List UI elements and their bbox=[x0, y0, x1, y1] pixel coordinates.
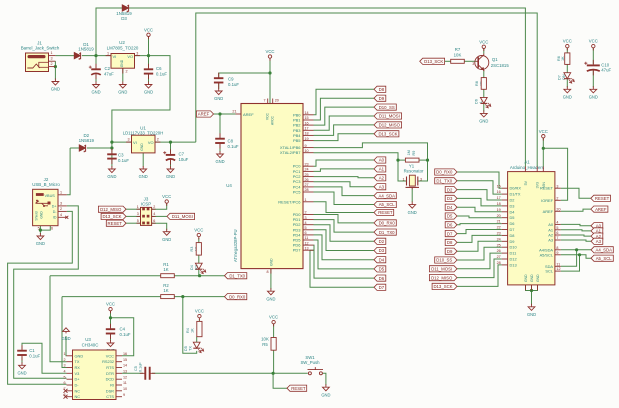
wire C1 to ground bbox=[21, 357, 23, 363]
A1 pin 20 D5 bbox=[502, 217, 508, 219]
wire R2 to D0_RX0 label bbox=[174, 296, 226, 298]
A1 pin 19 D4 bbox=[502, 211, 508, 213]
svg-text:1: 1 bbox=[63, 352, 65, 356]
svg-text:A5_SCL: A5_SCL bbox=[596, 256, 613, 261]
svg-text:CTS: CTS bbox=[106, 394, 114, 399]
wire U4 PB1 to D9 label bbox=[314, 98, 375, 120]
svg-text:D12_MISO: D12_MISO bbox=[379, 123, 401, 128]
A1 pin 21 D6 bbox=[502, 223, 508, 225]
svg-text:2: 2 bbox=[60, 207, 62, 211]
ground above U3 pin1 bbox=[63, 328, 70, 334]
wire U4 PD3 to D3 net label bbox=[314, 230, 375, 251]
svg-text:A0: A0 bbox=[379, 158, 385, 163]
wire U4 PC4 to A4 net label bbox=[314, 187, 375, 196]
svg-text:D7: D7 bbox=[510, 227, 515, 232]
svg-text:3: 3 bbox=[472, 62, 474, 66]
junction J2 ground bbox=[39, 229, 42, 232]
svg-text:GND: GND bbox=[17, 371, 26, 376]
A1 pin 3 RESET bbox=[555, 187, 561, 189]
wire C7 to ground bbox=[170, 161, 172, 167]
svg-text:2: 2 bbox=[556, 196, 558, 200]
wire VCC to R4 bbox=[198, 319, 200, 321]
wire TX vertical to U3 pin2 bbox=[50, 276, 67, 362]
svg-text:VCC: VCC bbox=[194, 228, 203, 233]
svg-text:GND: GND bbox=[408, 210, 417, 215]
U4 pin 6 PD4 bbox=[303, 234, 314, 236]
VCC power symbol above C10 bbox=[592, 44, 595, 47]
svg-text:D2: D2 bbox=[510, 198, 515, 203]
svg-text:26: 26 bbox=[497, 249, 501, 253]
svg-text:DCD: DCD bbox=[106, 377, 115, 382]
net label D9 left of A1 bbox=[445, 248, 457, 254]
J2 pin 3 bbox=[58, 205, 67, 207]
svg-text:D7: D7 bbox=[379, 285, 385, 290]
wire U4 PC1 to A1 net label bbox=[314, 169, 375, 172]
junction VCC/C9 bbox=[268, 71, 271, 74]
wire U4 PB4 to D12 label bbox=[314, 125, 375, 135]
svg-text:24: 24 bbox=[305, 168, 309, 172]
svg-text:3: 3 bbox=[60, 201, 62, 205]
wire U4 PD2 to D2 net label bbox=[314, 225, 375, 242]
A1 top pins 5V 3V3 VIN bbox=[525, 167, 543, 172]
net label D3 left of A1 bbox=[445, 195, 457, 201]
svg-text:D0_RX0: D0_RX0 bbox=[379, 221, 396, 226]
wire SW1 to ground bbox=[323, 373, 326, 385]
wire down to C7 bbox=[170, 142, 172, 153]
net label A1 right of U4 bbox=[374, 166, 386, 172]
wire U3 TX line to R1 bbox=[50, 275, 161, 277]
wire VCC to C4 bbox=[110, 311, 112, 328]
svg-text:D10_SS: D10_SS bbox=[379, 105, 395, 110]
J3 pins 1/2 bbox=[137, 208, 156, 210]
svg-text:Shield: Shield bbox=[35, 211, 39, 220]
net label D3 right of U4 bbox=[374, 247, 386, 253]
A1 pin 7 A3 bbox=[555, 239, 561, 241]
wire J3 pin6 to ground bbox=[152, 223, 167, 230]
U3 pin 13 DTR bbox=[116, 372, 122, 374]
svg-text:1: 1 bbox=[60, 190, 62, 194]
net label D4 right of U4 bbox=[374, 257, 386, 263]
svg-text:AREF: AREF bbox=[198, 112, 210, 117]
svg-text:12: 12 bbox=[556, 267, 560, 271]
svg-text:VBUS: VBUS bbox=[45, 194, 56, 198]
wire Q1 emitter to R8 bbox=[483, 71, 485, 78]
A1 pin 20 AREF bbox=[555, 210, 561, 212]
capacitor C6 0.1uF bbox=[148, 64, 150, 79]
J3 pins 5/6 bbox=[137, 222, 156, 224]
resistor R4 1K bbox=[197, 321, 202, 336]
wire C2 to ground bbox=[95, 75, 97, 83]
svg-text:D8: D8 bbox=[447, 240, 453, 245]
svg-text:GND: GND bbox=[162, 237, 171, 242]
wire tap to C9 bbox=[219, 73, 270, 78]
wire header A0 pin to A0 label bbox=[561, 224, 591, 225]
svg-text:AREF: AREF bbox=[243, 112, 254, 117]
wire header A4/SDA pin to A4_SDA label bbox=[561, 249, 591, 251]
svg-text:XTAL2/PB7: XTAL2/PB7 bbox=[280, 150, 301, 155]
wire VCC to R6 bbox=[566, 48, 568, 53]
svg-text:24: 24 bbox=[497, 237, 501, 241]
wire J2 VBUS up to D2 bbox=[67, 148, 70, 195]
J1 pin 2 bbox=[49, 66, 56, 68]
svg-text:GND: GND bbox=[527, 312, 536, 317]
svg-text:VCC: VCC bbox=[195, 309, 204, 314]
net label D11_MOSI at ICSP bbox=[167, 213, 195, 219]
svg-text:SW_Push: SW_Push bbox=[300, 360, 320, 365]
svg-text:GND: GND bbox=[91, 90, 100, 95]
svg-text:VI: VI bbox=[113, 54, 117, 59]
U3 pin 3 RX bbox=[67, 367, 73, 369]
svg-text:GND: GND bbox=[51, 87, 60, 92]
ground below C6 bbox=[145, 82, 152, 89]
ground below C2 bbox=[93, 82, 100, 89]
connector A1 Arduino_Headers body bbox=[508, 172, 555, 285]
svg-text:D1_TX0: D1_TX0 bbox=[436, 179, 452, 184]
svg-text:28: 28 bbox=[305, 188, 309, 192]
svg-text:GND: GND bbox=[530, 274, 534, 282]
net label D4 left of A1 bbox=[445, 204, 457, 210]
svg-text:D4: D4 bbox=[379, 257, 385, 262]
svg-text:D0_RX0: D0_RX0 bbox=[436, 170, 453, 175]
svg-text:D9: D9 bbox=[510, 239, 515, 244]
wire J2 GND and shield pins tied bbox=[40, 226, 50, 230]
svg-text:1: 1 bbox=[50, 51, 52, 55]
wire D2 cathode to U1 input node bbox=[87, 147, 112, 149]
U3 pin 14 RTS bbox=[116, 367, 122, 369]
wire VCC to R3 bbox=[198, 238, 200, 243]
svg-text:C2: C2 bbox=[105, 66, 111, 71]
wire D7 label to header pin 22 bbox=[457, 230, 502, 234]
A1 pin 11 SDA bbox=[555, 265, 561, 267]
svg-text:6: 6 bbox=[556, 231, 558, 235]
svg-text:16: 16 bbox=[497, 190, 501, 194]
net label D13_SCK at Q1 bbox=[420, 58, 445, 64]
junction U3 VCC node bbox=[109, 316, 112, 319]
svg-text:3: 3 bbox=[420, 178, 422, 182]
A1 pin 28 D13 bbox=[502, 264, 508, 266]
svg-text:GND: GND bbox=[524, 274, 528, 282]
svg-text:D12_MISO: D12_MISO bbox=[431, 275, 453, 280]
svg-text:AREF: AREF bbox=[543, 209, 554, 214]
wire header A2 pin to A2 label bbox=[561, 235, 591, 236]
net label RESET at ICSP bbox=[106, 220, 126, 226]
svg-text:1K: 1K bbox=[163, 267, 168, 272]
U4 pin 9 XTAL1/PB6 bbox=[303, 147, 314, 149]
svg-text:D4: D4 bbox=[447, 205, 453, 210]
wire U4 PB0 to D8 label bbox=[314, 89, 375, 115]
wire R4 to D5 bbox=[196, 337, 198, 343]
U4 pin 11 PD5 bbox=[303, 239, 314, 241]
svg-text:TX: TX bbox=[189, 346, 193, 351]
wire U4 PD4 to D4 net label bbox=[314, 235, 375, 260]
wire U3 pin1 to ground above bbox=[65, 336, 68, 356]
junction reset node bbox=[272, 372, 275, 375]
wire U1 GND pin to ground bbox=[142, 153, 144, 167]
svg-text:15: 15 bbox=[305, 116, 309, 120]
svg-text:1N5819: 1N5819 bbox=[79, 138, 95, 143]
svg-text:GND: GND bbox=[479, 119, 488, 124]
ground below C9 bbox=[215, 88, 222, 95]
ground below J3 bbox=[163, 229, 170, 236]
net label A4_SDA right of A1 bbox=[591, 247, 613, 253]
svg-text:Arduino_Headers: Arduino_Headers bbox=[510, 165, 545, 170]
svg-text:GND: GND bbox=[536, 274, 540, 282]
U3 pin 5 D+ bbox=[67, 378, 73, 380]
A1 pin 26 D11 bbox=[502, 252, 508, 254]
svg-text:47uF: 47uF bbox=[104, 71, 114, 76]
wire C5 to reset junction bbox=[152, 372, 273, 374]
junction VCC header bbox=[542, 147, 545, 150]
svg-text:2SC1815: 2SC1815 bbox=[491, 63, 510, 68]
U4 pin 18 PB4 bbox=[303, 134, 314, 136]
U4 bottom GND pin 8 bbox=[270, 269, 272, 274]
A1 pin 8 A4/SDA bbox=[555, 249, 561, 251]
wire RESET label to J3 pin5 bbox=[126, 222, 141, 224]
svg-text:10: 10 bbox=[123, 387, 127, 391]
svg-text:3: 3 bbox=[63, 364, 65, 368]
svg-text:0.1uF: 0.1uF bbox=[228, 144, 239, 149]
svg-text:6: 6 bbox=[51, 226, 53, 230]
svg-text:16: 16 bbox=[305, 121, 309, 125]
wire U2 VO to VCC node then down to U1 VI node bbox=[112, 56, 170, 153]
svg-text:A4_SDA: A4_SDA bbox=[378, 193, 395, 198]
U4 pin 25 PC2 bbox=[303, 176, 314, 178]
svg-text:15: 15 bbox=[497, 184, 501, 188]
svg-text:1: 1 bbox=[137, 205, 139, 209]
svg-text:AREF: AREF bbox=[595, 207, 607, 212]
wire VCC to R5 bbox=[273, 324, 275, 338]
net label D10_SS right of U4 bbox=[374, 104, 396, 110]
net label D10_SS left of A1 bbox=[435, 257, 457, 263]
U3 pin 10 DSR bbox=[116, 390, 122, 392]
U4 pin 27 PC4 bbox=[303, 186, 314, 188]
svg-text:D6: D6 bbox=[447, 223, 453, 228]
svg-text:20: 20 bbox=[275, 99, 279, 103]
svg-text:17: 17 bbox=[497, 196, 501, 200]
svg-text:5: 5 bbox=[137, 219, 139, 223]
svg-text:25: 25 bbox=[497, 243, 501, 247]
diode D2 1N5819 bbox=[79, 145, 85, 151]
svg-text:U3: U3 bbox=[85, 337, 91, 342]
svg-text:D3: D3 bbox=[510, 203, 515, 208]
wire D11_MOSI label to header pin 26 bbox=[457, 253, 502, 269]
VCC power symbol above J3 bbox=[165, 200, 168, 203]
svg-text:27: 27 bbox=[497, 255, 501, 259]
svg-text:3: 3 bbox=[137, 212, 139, 216]
svg-text:10uF: 10uF bbox=[179, 157, 189, 162]
ground below U1 bbox=[140, 166, 147, 173]
svg-text:0.1uF: 0.1uF bbox=[118, 158, 129, 163]
svg-text:ATmega328P-PU: ATmega328P-PU bbox=[233, 229, 238, 262]
junction J1 pin2-3 tie bbox=[54, 65, 57, 68]
svg-text:RESET/PC6: RESET/PC6 bbox=[278, 199, 301, 204]
U4 pin 15 PB1 bbox=[303, 119, 314, 121]
U4 pin 1 RESET/PC6 bbox=[303, 201, 314, 203]
wire R3 to D4 bbox=[198, 255, 200, 263]
wire D2 label to header pin 17 bbox=[457, 190, 502, 200]
svg-text:U4: U4 bbox=[226, 183, 232, 188]
svg-text:R8: R8 bbox=[475, 81, 479, 86]
wire U4 PC2 to A2 net label bbox=[314, 177, 375, 178]
wire USB D+ to U3 pin5 bbox=[14, 206, 79, 378]
svg-text:VCC: VCC bbox=[269, 315, 278, 320]
svg-text:D5: D5 bbox=[510, 215, 515, 220]
diode D1 1N5819 bbox=[74, 52, 80, 58]
wire D13_SCK label to header pin 28 bbox=[457, 265, 502, 287]
svg-text:22: 22 bbox=[497, 226, 501, 230]
ground below J1 bbox=[52, 79, 59, 86]
svg-text:7: 7 bbox=[263, 99, 265, 103]
svg-text:A3: A3 bbox=[548, 238, 553, 243]
wire header A5/SCL pin to A5_SCL label bbox=[561, 255, 591, 258]
net label D8 left of A1 bbox=[445, 239, 457, 245]
svg-text:PC5: PC5 bbox=[293, 190, 302, 195]
net label A2 right of U4 bbox=[374, 175, 386, 181]
svg-text:D11_MOSI: D11_MOSI bbox=[172, 214, 193, 219]
svg-text:4: 4 bbox=[556, 221, 558, 225]
svg-text:Q1: Q1 bbox=[492, 57, 498, 62]
junction header ground bbox=[530, 289, 533, 292]
svg-text:Resonator: Resonator bbox=[404, 169, 424, 174]
svg-text:GND: GND bbox=[139, 174, 148, 179]
wire USB VBUS to D2 anode bbox=[70, 147, 79, 149]
svg-text:12: 12 bbox=[305, 241, 309, 245]
svg-text:1: 1 bbox=[305, 198, 307, 202]
wire left node down to resonator pin1 bbox=[398, 160, 407, 181]
wire U2 GND pin to ground bbox=[122, 68, 124, 81]
wire U4 RESET/PC6 to RESET label bbox=[314, 202, 375, 213]
svg-text:GND: GND bbox=[214, 96, 223, 101]
wire RX junction down to D5 cathode bbox=[183, 297, 197, 354]
U4 pin 16 PB2 bbox=[303, 124, 314, 126]
net label A5_SCL right of A1 bbox=[591, 255, 613, 261]
svg-text:IOREF: IOREF bbox=[541, 198, 554, 203]
wire down to C6 bbox=[148, 56, 150, 68]
svg-text:GND: GND bbox=[36, 241, 45, 246]
wire right node down to resonator pin3 bbox=[418, 160, 428, 181]
A1 pin 9 A5/SCL bbox=[555, 254, 561, 256]
capacitor C10 47uF polarized bbox=[592, 60, 594, 76]
wire J3 pin2 to VCC bbox=[152, 203, 167, 209]
svg-text:PD7: PD7 bbox=[293, 248, 302, 253]
wire U3 RX line to R2 bbox=[62, 296, 161, 298]
svg-text:20: 20 bbox=[556, 207, 560, 211]
wire U4 PB3 to D11 label bbox=[314, 116, 375, 130]
svg-text:A5/SCL: A5/SCL bbox=[540, 252, 554, 257]
svg-text:RS232: RS232 bbox=[102, 359, 114, 364]
LED D4 RX bbox=[195, 263, 202, 269]
svg-text:D5: D5 bbox=[447, 214, 453, 219]
wire R9 to right node bbox=[419, 159, 428, 161]
svg-text:VO: VO bbox=[127, 54, 133, 59]
wire down to C8 bbox=[219, 114, 221, 138]
net label D13_SCK right of U4 bbox=[374, 131, 399, 137]
svg-text:V3: V3 bbox=[75, 371, 80, 376]
svg-text:21: 21 bbox=[497, 220, 501, 224]
wire J2 ground stub bbox=[39, 230, 41, 234]
svg-text:U2: U2 bbox=[119, 40, 125, 45]
net label D8 right of U4 bbox=[374, 86, 386, 92]
svg-text:A1: A1 bbox=[379, 167, 385, 172]
junction TX line / D4 bbox=[198, 274, 201, 277]
wire left node to R9 bbox=[398, 159, 406, 161]
J1 pin 1 bbox=[49, 55, 56, 57]
wire 3V3 rail from U1 output to header 3V3 pin bbox=[196, 13, 537, 167]
wire R8 to D6 bbox=[483, 89, 485, 97]
svg-text:D11_MOSI: D11_MOSI bbox=[379, 114, 400, 119]
svg-text:6: 6 bbox=[153, 219, 155, 223]
U4 pin 26 PC3 bbox=[303, 181, 314, 183]
wire D4 label to header pin 19 bbox=[457, 207, 502, 212]
U3 pin 15 RS232 bbox=[116, 361, 122, 363]
LED D7 ON bbox=[564, 73, 571, 79]
net label A3 right of A1 bbox=[591, 238, 603, 244]
wire C10 to ground bbox=[592, 70, 594, 87]
transistor Q1 2SC1815 bbox=[475, 56, 489, 70]
wire header SDA pin tied to A4 net bbox=[561, 250, 577, 266]
svg-text:18: 18 bbox=[305, 132, 309, 136]
svg-text:6: 6 bbox=[305, 231, 307, 235]
svg-text:5V: 5V bbox=[524, 180, 528, 185]
VCC power symbol above R4 bbox=[198, 314, 201, 317]
svg-text:8: 8 bbox=[266, 270, 268, 274]
svg-text:3: 3 bbox=[127, 138, 129, 142]
svg-text:VCC: VCC bbox=[539, 129, 548, 134]
U3 pin 16 VCC bbox=[116, 355, 122, 357]
ground below D7 bbox=[564, 86, 571, 93]
resonator Y1 body bbox=[409, 175, 415, 186]
svg-text:D1_TX0: D1_TX0 bbox=[379, 230, 395, 235]
VCC power symbol above A1 bbox=[542, 135, 545, 138]
svg-text:0.1uF: 0.1uF bbox=[156, 71, 167, 76]
svg-text:19: 19 bbox=[305, 137, 309, 141]
wire reset junction to SW1 bbox=[273, 372, 308, 374]
svg-text:AVCC: AVCC bbox=[271, 115, 275, 125]
svg-text:GND: GND bbox=[144, 90, 153, 95]
wire D13_SCK label to J3 pin3 bbox=[126, 215, 141, 217]
regulator U1 LD1117V33 body bbox=[132, 135, 156, 153]
svg-text:VCC: VCC bbox=[563, 39, 572, 44]
wire D0_RX0 label to header pin 15 bbox=[457, 172, 502, 188]
svg-text:21: 21 bbox=[232, 109, 236, 113]
svg-text:D7: D7 bbox=[447, 231, 453, 236]
svg-text:D1/TX: D1/TX bbox=[510, 192, 521, 197]
net label D7 left of A1 bbox=[445, 231, 457, 237]
svg-text:15: 15 bbox=[123, 358, 127, 362]
net label D2 right of U4 bbox=[374, 238, 386, 244]
svg-text:A3: A3 bbox=[379, 184, 385, 189]
wire header A1 pin to A1 label bbox=[561, 230, 591, 231]
net label D9 right of U4 bbox=[374, 95, 386, 101]
svg-text:CH340C: CH340C bbox=[82, 343, 99, 348]
svg-text:C1: C1 bbox=[29, 348, 35, 353]
ground below C8 bbox=[217, 151, 224, 158]
svg-text:3: 3 bbox=[305, 216, 307, 220]
ground below SW1 bbox=[323, 384, 330, 391]
U4 pin 12 PD6 bbox=[303, 244, 314, 246]
net label A1 right of A1 bbox=[591, 228, 603, 234]
svg-text:26: 26 bbox=[305, 178, 309, 182]
wire U3 DTR pin to C5 bbox=[122, 372, 143, 374]
A1 pin 4 A0 bbox=[555, 223, 561, 225]
wire D6 to ground bbox=[483, 103, 485, 111]
svg-text:3: 3 bbox=[50, 57, 52, 61]
svg-text:C4: C4 bbox=[120, 327, 126, 332]
svg-text:8: 8 bbox=[63, 393, 65, 397]
wire D3 label to header pin 18 bbox=[457, 198, 502, 206]
svg-text:D4: D4 bbox=[190, 265, 194, 270]
net label D7 right of U4 bbox=[374, 284, 386, 290]
